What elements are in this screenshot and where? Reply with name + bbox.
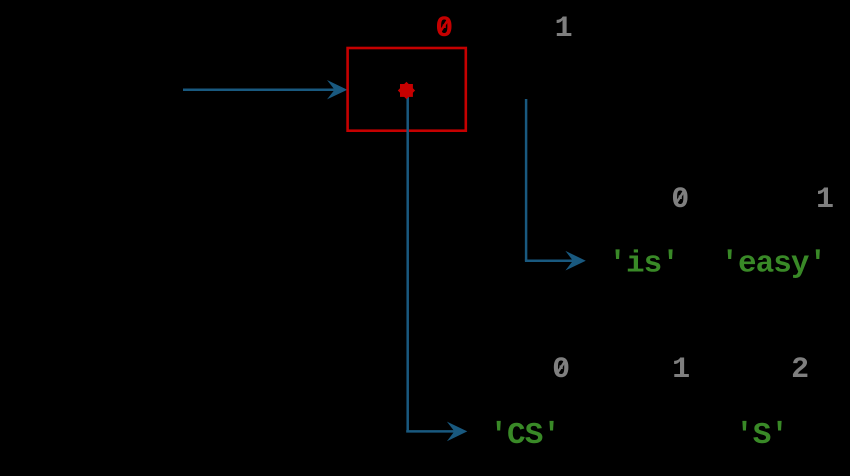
red highlight box (cell 0 of top list) <box>348 48 466 131</box>
slash of red zero <box>441 20 448 31</box>
svg-text:1: 1 <box>555 12 573 46</box>
arrow into list: stealth head <box>327 80 347 99</box>
slash of zero <box>558 362 565 373</box>
pointer from cell 1: stealth head <box>565 251 585 271</box>
pointer from cell 0: vertical wire <box>406 95 409 431</box>
svg-text:'easy': 'easy' <box>720 247 827 282</box>
red star marker in cell 0 <box>398 82 415 99</box>
svg-text:1: 1 <box>816 183 834 217</box>
svg-text:2: 2 <box>791 353 809 387</box>
pointer from cell 0: horizontal wire <box>406 430 455 433</box>
pointer from cell 1: horizontal wire <box>525 259 574 262</box>
svg-text:0: 0 <box>552 353 570 387</box>
svg-text:'is': 'is' <box>608 247 680 282</box>
svg-text:0: 0 <box>435 12 453 46</box>
pointer from cell 0: stealth head <box>447 422 467 442</box>
slash of zero <box>677 191 684 202</box>
svg-text:1: 1 <box>672 353 690 387</box>
svg-text:'S': 'S' <box>735 418 789 453</box>
pointer from cell 1: vertical wire <box>525 99 528 261</box>
svg-text:0: 0 <box>671 183 689 217</box>
arrow into list: horizontal shaft <box>183 88 336 91</box>
svg-text:'CS': 'CS' <box>489 418 561 453</box>
